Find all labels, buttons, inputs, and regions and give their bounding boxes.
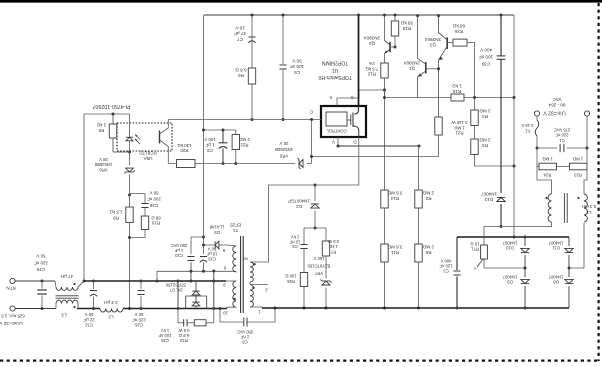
diode D11 — [568, 237, 570, 246]
resistor R11 — [381, 244, 388, 262]
svg-text:100 nF: 100 nF — [479, 54, 493, 59]
wire bridge plus rail — [457, 236, 569, 238]
wire C-V link column — [311, 120, 313, 164]
svg-text:R11: R11 — [391, 250, 400, 255]
wire L1 left out — [551, 222, 553, 227]
zener VR7 — [325, 256, 327, 279]
svg-text:2 MΩ: 2 MΩ — [479, 109, 491, 114]
svg-text:10: 10 — [223, 310, 228, 315]
svg-text:1 kΩ: 1 kΩ — [329, 244, 338, 249]
svg-text:C9: C9 — [207, 148, 213, 153]
svg-text:220 nF: 220 nF — [34, 260, 48, 265]
capacitor C8 Y-cap — [220, 309, 243, 323]
svg-text:400 V: 400 V — [479, 47, 492, 52]
svg-text:X: X — [329, 95, 332, 100]
wire Q2 emitter to R12 — [384, 54, 386, 64]
svg-text:D10: D10 — [505, 245, 513, 250]
resistor R10 — [144, 208, 146, 216]
svg-text:R20: R20 — [180, 148, 189, 153]
wire V node to R2 chain — [338, 145, 419, 147]
svg-text:400 V: 400 V — [440, 258, 451, 263]
capacitor C28 — [130, 194, 146, 204]
svg-text:R21: R21 — [455, 131, 463, 136]
wire opto collector — [160, 120, 169, 135]
svg-text:275 VAC: 275 VAC — [554, 127, 570, 132]
svg-text:100 V: 100 V — [204, 137, 216, 142]
svg-text:R18: R18 — [402, 26, 411, 31]
terminal AC L — [534, 111, 539, 116]
capacitor C7 — [248, 36, 255, 38]
svg-text:U out =32 V: U out =32 V — [0, 320, 23, 326]
wire R11 to ground rail — [384, 262, 386, 308]
capacitor C5 — [303, 228, 305, 245]
capacitor C1 — [537, 147, 557, 149]
svg-text:NC: NC — [242, 256, 248, 261]
svg-text:130 kΩ: 130 kΩ — [177, 143, 192, 148]
svg-text:R7: R7 — [330, 249, 336, 254]
svg-text:0.5 W: 0.5 W — [328, 239, 339, 244]
svg-text:STPS2150: STPS2150 — [165, 283, 186, 288]
diode D6 — [195, 281, 197, 291]
svg-text:2 MΩ: 2 MΩ — [422, 191, 434, 196]
svg-text:C25: C25 — [160, 338, 168, 343]
wire R2 top — [418, 146, 420, 190]
svg-text:R2: R2 — [425, 196, 431, 201]
svg-text:47 µF: 47 µF — [234, 31, 246, 36]
capacitor C9 — [222, 130, 224, 143]
wire primary return rail — [262, 307, 569, 309]
resistor R19 — [187, 322, 194, 324]
svg-text:50 V: 50 V — [134, 312, 143, 317]
opto LED — [129, 114, 131, 137]
svg-text:D11: D11 — [552, 245, 560, 250]
svg-text:C30: C30 — [481, 61, 490, 66]
resistor R3 — [471, 139, 478, 155]
svg-text:625 mA, 2.5 A pk: 625 mA, 2.5 A pk — [0, 313, 25, 318]
transformer primary winding lower — [250, 285, 253, 308]
svg-text:D13: D13 — [484, 197, 493, 202]
wire X node down to R14 chain — [384, 90, 386, 190]
capacitor C29 — [41, 281, 43, 289]
svg-text:6.8 Ω: 6.8 Ω — [179, 333, 189, 338]
inductor L2 — [100, 309, 123, 313]
zener VR6 — [129, 152, 131, 165]
svg-text:R6: R6 — [238, 73, 244, 78]
diode D9 — [524, 268, 526, 277]
svg-text:160 V: 160 V — [313, 256, 324, 261]
svg-text:VR5: VR5 — [279, 153, 288, 158]
svg-text:3.6 MΩ: 3.6 MΩ — [387, 245, 402, 250]
diode D7 — [192, 302, 200, 306]
svg-text:F1: F1 — [524, 128, 530, 133]
svg-text:T1: T1 — [232, 228, 238, 233]
svg-text:0.125 W: 0.125 W — [451, 120, 468, 125]
svg-text:EF25: EF25 — [230, 222, 241, 227]
resistor R18 — [394, 15, 396, 21]
wire feedback top — [84, 113, 130, 115]
svg-text:1 kV: 1 kV — [291, 235, 300, 240]
svg-text:68 Ω: 68 Ω — [151, 215, 161, 220]
wire R2-R5 — [418, 208, 420, 244]
svg-text:1N4007: 1N4007 — [548, 274, 563, 279]
wire output return rail — [15, 308, 56, 310]
svg-text:VR7: VR7 — [314, 271, 323, 276]
svg-text:1 µF: 1 µF — [174, 248, 183, 253]
fuse F1 — [536, 116, 538, 120]
diode D13 — [497, 197, 505, 201]
svg-text:R3: R3 — [482, 143, 488, 148]
svg-text:C28: C28 — [149, 203, 158, 208]
wire R10 bottom — [130, 230, 146, 238]
svg-text:RTN: RTN — [6, 285, 15, 290]
svg-text:1 MΩ: 1 MΩ — [454, 125, 465, 130]
svg-text:Q1: Q1 — [408, 66, 415, 71]
svg-text:D8: D8 — [553, 279, 559, 284]
svg-text:VAC: VAC — [552, 97, 562, 102]
svg-text:1%: 1% — [369, 61, 375, 66]
svg-text:2 MΩ: 2 MΩ — [422, 245, 434, 250]
wire left rail — [203, 15, 205, 245]
svg-text:PI-4750-102907: PI-4750-102907 — [92, 103, 130, 109]
svg-text:LL4148: LL4148 — [209, 225, 224, 230]
svg-text:L1: L1 — [586, 210, 591, 215]
wire C6 column — [282, 15, 284, 64]
inductor L3 choke — [56, 287, 78, 290]
svg-text:1.5 kΩ: 1.5 kΩ — [109, 210, 123, 215]
diode D7 leg right — [213, 271, 215, 309]
wire X pin — [337, 90, 385, 106]
svg-text:Q3: Q3 — [429, 43, 436, 48]
opto phototransistor — [159, 131, 161, 144]
svg-text:Q2: Q2 — [368, 41, 375, 46]
wire snubber legs — [177, 309, 179, 323]
zener VR5 1N5250B — [299, 160, 303, 168]
svg-text:PC817D: PC817D — [139, 150, 157, 155]
svg-text:50 V: 50 V — [291, 59, 301, 64]
svg-text:C8: C8 — [242, 339, 248, 344]
svg-text:C31: C31 — [84, 323, 93, 328]
wire R14-R11 — [384, 208, 386, 244]
resistor R8 — [126, 207, 133, 223]
svg-text:D5: D5 — [214, 230, 220, 235]
page top border — [0, 0, 602, 3]
wire DC bus column — [500, 15, 502, 56]
svg-text:3.3 µH: 3.3 µH — [104, 300, 118, 305]
svg-text:C5: C5 — [292, 244, 298, 249]
wire clamp node — [304, 227, 326, 229]
wire S pin bold — [358, 15, 360, 107]
resistor R21 — [435, 117, 442, 135]
wire feedback column — [83, 114, 85, 281]
svg-text:C3: C3 — [443, 268, 449, 273]
wire AC to bridge left — [484, 226, 552, 228]
svg-text:R5: R5 — [98, 128, 104, 133]
svg-text:BZY97C150: BZY97C150 — [307, 263, 330, 268]
wire rectifier inner loop — [186, 295, 207, 297]
svg-text:CONTROL: CONTROL — [326, 128, 347, 133]
svg-text:0.5 W: 0.5 W — [178, 328, 189, 333]
capacitor C6 — [279, 64, 286, 66]
resistor R2 — [415, 190, 422, 208]
capacitor C10 — [191, 237, 204, 254]
resistor R12 — [381, 63, 388, 78]
svg-text:16 V: 16 V — [234, 26, 244, 31]
wire opto emitter — [160, 140, 169, 164]
thermistor RT1 — [483, 227, 485, 246]
transistor Q2 2N3904 — [389, 42, 391, 52]
resistor R22 — [235, 130, 237, 135]
capacitor C25 — [178, 322, 184, 324]
resistor R15 — [451, 94, 464, 101]
svg-text:2N3904: 2N3904 — [404, 61, 421, 66]
svg-text:50 V: 50 V — [36, 254, 45, 259]
svg-text:50 V: 50 V — [84, 312, 93, 317]
terminal AC N — [584, 111, 589, 116]
svg-text:100 Ω: 100 Ω — [285, 274, 296, 279]
U1 mosfet symbol — [355, 107, 359, 114]
svg-text:D2: D2 — [296, 204, 302, 209]
diode D6 leg left — [177, 281, 179, 309]
svg-text:RT1: RT1 — [470, 246, 479, 251]
wire Q2 collector — [384, 15, 386, 41]
svg-text:3.15 A: 3.15 A — [521, 123, 533, 128]
svg-text:200 nF: 200 nF — [147, 197, 161, 202]
svg-text:*: * — [474, 264, 476, 270]
svg-text:1N4007: 1N4007 — [502, 240, 517, 245]
svg-text:TOPSwitch-HX: TOPSwitch-HX — [318, 74, 352, 80]
svg-text:50 V: 50 V — [207, 246, 216, 251]
svg-text:1 kV: 1 kV — [161, 328, 170, 333]
wire C9-R22 top — [204, 129, 237, 131]
terminal Uout — [10, 306, 15, 311]
capacitor C15 — [203, 245, 205, 254]
svg-text:5.3 mH: 5.3 mH — [582, 204, 596, 209]
svg-text:1N4007: 1N4007 — [548, 240, 563, 245]
svg-text:100 nF: 100 nF — [158, 333, 171, 338]
svg-text:28 V: 28 V — [99, 157, 108, 162]
svg-text:R23: R23 — [573, 172, 581, 177]
wire C pin — [168, 119, 321, 121]
svg-text:2N3904: 2N3904 — [425, 37, 442, 42]
wire AC to bridge right — [569, 223, 584, 268]
svg-text:1 µF: 1 µF — [205, 143, 214, 148]
op-amp U1 TOP258MN control block — [321, 106, 366, 137]
wire bias node — [204, 244, 229, 246]
resistor R5 — [415, 244, 422, 262]
svg-text:R12: R12 — [367, 72, 376, 77]
resistor R4 — [471, 110, 478, 126]
svg-text:C29: C29 — [36, 267, 45, 272]
page bottom dashed border — [0, 360, 600, 362]
svg-text:2 kΩ: 2 kΩ — [96, 123, 106, 128]
svg-text:C7: C7 — [237, 37, 243, 42]
svg-text:47 µH: 47 µH — [61, 274, 73, 279]
svg-text:2N3904: 2N3904 — [364, 35, 381, 40]
svg-text:TOP258MN: TOP258MN — [321, 59, 348, 65]
transformer bias winding — [233, 246, 236, 272]
inductor L1 choke — [537, 167, 552, 195]
svg-text:39 kΩ: 39 kΩ — [400, 21, 413, 26]
svg-text:6.8 Ω: 6.8 Ω — [235, 68, 247, 73]
svg-text:D9: D9 — [507, 279, 513, 284]
svg-text:20 V: 20 V — [279, 141, 288, 146]
svg-text:22 µF: 22 µF — [83, 317, 95, 322]
wire RT1 to bridge — [484, 267, 525, 269]
wire R21 bottom — [312, 135, 439, 157]
svg-text:2 MΩ: 2 MΩ — [479, 138, 491, 143]
svg-text:C1: C1 — [559, 138, 565, 143]
svg-text:C15: C15 — [207, 256, 215, 261]
svg-text:250 VAC: 250 VAC — [237, 329, 253, 334]
wire R12 to X node — [384, 78, 386, 90]
svg-text:10 µF: 10 µF — [206, 251, 217, 256]
wire R3 to bus — [475, 155, 515, 167]
resistor R6 — [248, 68, 255, 84]
terminal RTN — [10, 278, 15, 283]
wire R8 bottom — [129, 223, 131, 309]
wire R25 to rail — [303, 287, 305, 309]
page right dashed border — [597, 3, 599, 361]
svg-text:L3: L3 — [61, 312, 67, 317]
svg-text:L2: L2 — [108, 314, 114, 319]
svg-text:1N4007: 1N4007 — [481, 192, 498, 197]
svg-text:R8: R8 — [113, 215, 119, 220]
svg-text:U1: U1 — [332, 67, 339, 73]
capacitor C26 — [140, 281, 142, 289]
resistor R5 feedback — [109, 124, 116, 138]
diode D10 — [524, 237, 526, 246]
resistor R14 — [381, 190, 388, 208]
wire R26 to R15 node — [467, 43, 475, 98]
svg-text:7.5 kΩ: 7.5 kΩ — [365, 66, 379, 71]
svg-text:U in =32 V: U in =32 V — [543, 110, 566, 116]
diode D8 — [568, 268, 570, 277]
wire R4-R3 — [474, 98, 476, 111]
transformer secondary winding — [233, 281, 236, 307]
svg-text:R19: R19 — [179, 338, 187, 343]
svg-text:2 MΩ: 2 MΩ — [238, 137, 249, 142]
capacitor C31 — [93, 281, 95, 289]
svg-text:S: S — [351, 95, 354, 100]
resistor R24 — [536, 148, 538, 167]
svg-text:R10: R10 — [151, 221, 160, 226]
diode D2 1N4007GP — [314, 185, 316, 201]
wire V pin stub — [337, 137, 339, 146]
transistor Q1 2N3904 — [425, 62, 427, 74]
svg-text:1 MΩ: 1 MΩ — [573, 156, 583, 161]
wire right edge drop — [513, 15, 515, 237]
opto U5A PC817D box — [117, 123, 172, 151]
wire C7-R6 column — [251, 15, 253, 68]
svg-text:50 V: 50 V — [149, 190, 158, 195]
wire R15 row — [384, 90, 386, 98]
svg-text:C26: C26 — [134, 323, 143, 328]
wire opto emitter net — [168, 163, 295, 165]
wire D pin drain — [250, 137, 359, 262]
svg-text:1 nF: 1 nF — [240, 334, 249, 339]
svg-text:R26: R26 — [454, 29, 463, 34]
svg-text:1 kΩ: 1 kΩ — [452, 83, 462, 88]
svg-text:1N5250B: 1N5250B — [275, 147, 293, 152]
svg-text:C10: C10 — [174, 253, 182, 258]
svg-text:1N4007GP: 1N4007GP — [288, 199, 310, 204]
svg-text:220 nF: 220 nF — [132, 317, 146, 322]
resistor R25 — [303, 249, 305, 273]
svg-text:R14: R14 — [390, 196, 399, 201]
svg-text:R22: R22 — [240, 143, 249, 148]
svg-text:250 VAC: 250 VAC — [171, 243, 187, 248]
resistor R20 — [177, 160, 196, 168]
svg-text:R24: R24 — [543, 172, 551, 177]
transistor Q3 2N3904 — [446, 37, 448, 49]
resistor R23 — [570, 163, 588, 170]
svg-text:U5A: U5A — [143, 156, 153, 161]
svg-text:220 nF: 220 nF — [555, 133, 568, 138]
svg-text:R15: R15 — [452, 89, 461, 94]
transformer primary winding upper — [250, 262, 253, 282]
svg-text:R25: R25 — [286, 279, 294, 284]
svg-text:100 nF: 100 nF — [290, 64, 304, 69]
svg-text:68 kΩ: 68 kΩ — [452, 24, 465, 29]
wire output plus rail — [15, 280, 55, 282]
svg-text:1N4007: 1N4007 — [502, 274, 517, 279]
wire source rail — [204, 14, 514, 16]
transformer T1 core — [240, 236, 242, 313]
resistor R26 — [453, 39, 467, 46]
svg-text:1 MΩ: 1 MΩ — [542, 156, 552, 161]
svg-text:10 Ω: 10 Ω — [471, 241, 480, 246]
svg-text:3.6 MΩ: 3.6 MΩ — [387, 191, 402, 196]
wire R5 to ground rail — [418, 262, 420, 308]
svg-text:120 nF: 120 nF — [439, 263, 452, 268]
svg-text:C6: C6 — [294, 70, 300, 75]
wire bias return — [157, 271, 236, 281]
svg-text:R5: R5 — [425, 250, 431, 255]
capacitor C3 — [456, 237, 458, 270]
resistor R7 — [325, 228, 327, 241]
svg-text:R4: R4 — [482, 114, 488, 119]
svg-text:D6, D7: D6, D7 — [169, 288, 183, 293]
svg-text:VR6: VR6 — [99, 167, 108, 172]
svg-text:10 nF: 10 nF — [289, 239, 300, 244]
svg-text:90 - 264: 90 - 264 — [548, 103, 565, 108]
capacitor C30 — [497, 55, 506, 57]
diode D5 LL4148 — [215, 241, 219, 249]
svg-text:1N5258B: 1N5258B — [95, 162, 113, 167]
